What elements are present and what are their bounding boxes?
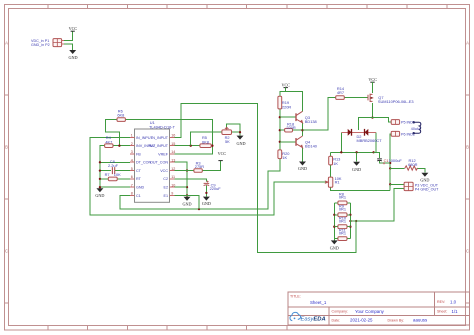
svg-text:0R1: 0R1 [339, 230, 346, 235]
svg-text:BD140: BD140 [305, 144, 318, 149]
svg-text:1K: 1K [282, 155, 287, 160]
svg-text:R7: R7 [105, 172, 110, 177]
svg-text:220R: 220R [286, 125, 295, 130]
svg-text:GND_in P2: GND_in P2 [31, 43, 50, 47]
connector P6 IND2 [391, 131, 415, 136]
transistor Q3 [296, 111, 317, 124]
svg-text:6K8: 6K8 [117, 113, 124, 118]
svg-text:4R7: 4R7 [337, 90, 344, 95]
svg-text:SUM110P06-06L-E3: SUM110P06-06L-E3 [378, 99, 414, 104]
resistor R12 zigzag [405, 158, 418, 170]
ground R2 [236, 136, 245, 146]
resistor R3 275R [194, 160, 204, 172]
VCC flag input [69, 26, 78, 31]
node sense junction [355, 220, 357, 222]
wire R2 wiper loop and ground [227, 124, 240, 135]
resistor R14 [336, 86, 345, 99]
svg-text:GND: GND [182, 201, 191, 206]
connector P3 P4 output header [404, 182, 439, 191]
ground left column [95, 188, 104, 198]
wire driver output to R14 to gate [303, 98, 368, 131]
svg-text:EasyEDA: EasyEDA [301, 317, 326, 323]
wire pin6 RT to R7 [100, 178, 130, 180]
wire P1 to VCC [64, 31, 73, 40]
wire E2 [174, 186, 187, 188]
wire pin11 C2 to cap C9 [174, 179, 206, 197]
wire shunt resistor leads [334, 203, 350, 239]
ground pin13 column [182, 197, 191, 207]
svg-text:GND: GND [236, 141, 245, 146]
svg-text:aauuss: aauuss [413, 318, 428, 323]
svg-text:GND: GND [202, 201, 211, 206]
svg-text:4K7: 4K7 [105, 139, 112, 144]
VCC flag IC [218, 151, 227, 160]
wire pin7 GND [100, 186, 130, 188]
svg-text:RT: RT [136, 177, 142, 181]
wire switch node to diode center [358, 118, 372, 131]
resistor R6 [117, 108, 125, 121]
resistor R7 [105, 172, 122, 181]
svg-text:GND: GND [330, 245, 339, 250]
svg-text:680R: 680R [408, 162, 417, 167]
svg-text:P4 GND_OUT: P4 GND_OUT [415, 188, 439, 192]
resistor R8 [338, 192, 347, 205]
svg-text:Your Company: Your Company [355, 309, 385, 314]
wire E1 to wireA riser [174, 195, 199, 209]
svg-text:GND: GND [95, 193, 104, 198]
wire R12 to ground [390, 168, 425, 172]
svg-text:5K: 5K [225, 139, 230, 144]
svg-text:40uH: 40uH [411, 127, 420, 131]
svg-text:220uF: 220uF [210, 186, 222, 191]
svg-text:Drawn By:: Drawn By: [388, 318, 405, 322]
capacitor C8 [108, 159, 119, 174]
svg-text:220R: 220R [282, 105, 291, 110]
wire Q4 base [280, 141, 296, 143]
capacitor C1 polarized [377, 158, 402, 164]
svg-text:2.2uF: 2.2uF [108, 163, 119, 168]
svg-text:REV:: REV: [437, 300, 445, 304]
wire driver left column [279, 109, 281, 150]
svg-text:TL494D-D16-T: TL494D-D16-T [149, 124, 176, 129]
svg-text:1.0: 1.0 [450, 299, 457, 304]
resistor R13 [329, 156, 341, 166]
wire Q4 emitter to ground [302, 148, 304, 162]
svg-text:VCC: VCC [69, 26, 78, 31]
wire R2 left arm [191, 132, 222, 146]
node pin2 junction [118, 145, 120, 147]
wire diode anodes down to ground rail [331, 132, 376, 152]
wire driver VCC rail [280, 91, 303, 111]
connector P1 P2 input header [31, 39, 64, 47]
resistor R9 [338, 204, 347, 217]
svg-text:MBRB2060CT: MBRB2060CT [357, 138, 383, 143]
wire pin2 [113, 145, 130, 147]
resistor R19 [278, 96, 291, 109]
svg-text:B: B [466, 145, 469, 150]
svg-text:IN_INPUT: IN_INPUT [151, 136, 169, 140]
svg-text:C: C [5, 249, 8, 254]
svg-text:A: A [5, 41, 8, 46]
svg-text:0R1: 0R1 [339, 207, 346, 212]
svg-text:Date:: Date: [332, 318, 341, 322]
svg-text:GND: GND [298, 166, 307, 171]
svg-text:0R1: 0R1 [339, 195, 346, 200]
resistor R5 [200, 135, 211, 147]
svg-text:VCC: VCC [368, 77, 377, 82]
resistor R10 [338, 216, 347, 229]
ground input [68, 50, 77, 60]
wire left ground column [100, 146, 105, 189]
ground shunt [333, 239, 335, 241]
svg-text:C: C [466, 249, 469, 254]
svg-text:A: A [466, 41, 469, 46]
wire P4 ground return to shunt [350, 189, 404, 222]
wire shunt rails [334, 203, 350, 239]
op-amp U1 TL494 [130, 120, 175, 202]
svg-text:CT: CT [136, 169, 142, 173]
svg-text:B: B [5, 145, 8, 150]
potentiometer R2 [222, 127, 232, 144]
wire R6 right to VREF node [125, 120, 212, 154]
wire R13 top [330, 152, 332, 177]
svg-text:GND: GND [420, 177, 429, 182]
svg-text:R1: R1 [335, 180, 340, 185]
svg-text:GND: GND [68, 55, 77, 60]
svg-text:C1: C1 [136, 194, 141, 198]
svg-text:INV_INPUT: INV_INPUT [149, 144, 169, 148]
svg-text:E1: E1 [163, 194, 168, 198]
transistor Q4 [296, 136, 318, 149]
svg-text:TITLE:: TITLE: [290, 295, 301, 299]
svg-text:275R: 275R [195, 164, 204, 169]
svg-text:6K8: 6K8 [202, 139, 209, 144]
wire C1 tap [374, 152, 391, 163]
wire Q3 emitter to Q4 collector [302, 123, 304, 136]
svg-text:VCC: VCC [281, 82, 290, 87]
wire pin1 to pot wiper [90, 137, 325, 215]
mosfet Q7 [368, 94, 414, 104]
wire pin16 to shunt sense [130, 104, 356, 253]
wire pin15 [174, 145, 212, 147]
svg-text:VCC: VCC [160, 169, 168, 173]
VCC flag mosfet [368, 77, 377, 93]
wire pin4 DT_CON [100, 161, 130, 163]
svg-text:BD138: BD138 [305, 119, 317, 124]
node column junctions [99, 161, 101, 188]
wire R18 leads [280, 129, 303, 131]
ground C9 [202, 197, 211, 206]
svg-text:VCC: VCC [218, 151, 227, 156]
svg-text:Sheet_1: Sheet_1 [310, 300, 327, 305]
wire drain to switch node [372, 103, 374, 118]
svg-text:GND: GND [352, 167, 361, 172]
svg-text:C2: C2 [163, 177, 168, 181]
svg-text:Company:: Company: [332, 310, 348, 314]
resistor R11 [338, 227, 347, 240]
svg-text:1K: 1K [333, 161, 338, 166]
svg-text:10K: 10K [114, 172, 121, 177]
wire P6 down the output node column [390, 134, 391, 191]
svg-text:FB: FB [136, 152, 141, 156]
resistor R20 [278, 150, 290, 160]
resistor R18 [285, 122, 296, 132]
wire P3 output [390, 183, 404, 185]
svg-text:VREF: VREF [158, 152, 169, 156]
wire pin12 VCC through R3 [174, 161, 220, 171]
potentiometer R1 [323, 176, 342, 187]
wire pin8 C1 to R20 bottom [120, 159, 280, 210]
capacitor C9 polarized [204, 181, 222, 192]
node wireA E1 junction [198, 208, 200, 210]
wire P2 to GND [64, 44, 73, 50]
resistor R4 [105, 135, 113, 147]
connector P5 IND1 [391, 120, 415, 125]
svg-text:1/1: 1/1 [452, 309, 459, 314]
wire R6 left to pin2 node [106, 120, 120, 146]
ground diode rail [356, 152, 358, 161]
wire pin5 CT to C8 [100, 170, 130, 172]
svg-text:0R1: 0R1 [339, 219, 346, 224]
svg-text:GND: GND [136, 186, 145, 190]
wire pin14 VREF handled above; wire pin13 OUT_CON column [174, 162, 187, 197]
svg-text:1000uF: 1000uF [389, 158, 403, 163]
title block [288, 292, 470, 325]
diode D2 dual schottky [341, 129, 382, 143]
wire Q3 base [280, 116, 296, 118]
wire pot bottom to output node [331, 187, 391, 190]
svg-text:OUT_CON: OUT_CON [150, 161, 168, 165]
svg-text:E2: E2 [163, 186, 168, 190]
svg-text:Sheet:: Sheet: [437, 310, 447, 314]
inductor 40uH [413, 122, 421, 134]
EasyEDA logo [290, 312, 326, 322]
svg-text:2021-02-25: 2021-02-25 [350, 318, 373, 323]
wire switch node to P5 [373, 118, 392, 122]
VCC flag driver rail [281, 82, 290, 91]
